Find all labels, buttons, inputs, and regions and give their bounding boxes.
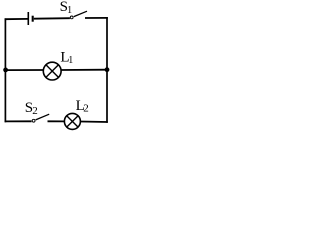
svg-text:1: 1 <box>68 55 73 66</box>
wire battery to switch S1 <box>34 17 70 20</box>
lamp L1 cross <box>46 65 59 78</box>
lamp L2 circle <box>64 113 80 129</box>
battery cell long plate (+) <box>27 12 29 25</box>
wire middle right <box>61 69 107 71</box>
wire middle left <box>5 69 44 71</box>
svg-text:2: 2 <box>32 105 38 117</box>
switch S1 blade (open) <box>74 11 87 16</box>
node junction dot left <box>3 68 8 73</box>
svg-text:2: 2 <box>83 103 89 115</box>
lamp L2 cross <box>67 116 78 127</box>
battery cell short plate (-) <box>32 16 34 22</box>
wire left vertical <box>4 18 6 122</box>
node junction dot right <box>105 67 110 72</box>
switch S1 contact circle <box>70 16 73 19</box>
svg-text:1: 1 <box>67 5 72 16</box>
wire top-left horizontal <box>5 18 28 20</box>
wire right vertical <box>106 17 108 123</box>
wire lamp L2 to bottom-right corner <box>80 121 107 124</box>
switch S2 blade (open) <box>36 114 50 120</box>
switch S2 contact circle <box>32 119 35 122</box>
wire switch S1 to top-right corner <box>85 17 108 19</box>
lamp L1 circle <box>43 62 61 80</box>
wire switch S2 to lamp L2 <box>48 120 65 122</box>
wire bottom left <box>5 120 32 122</box>
